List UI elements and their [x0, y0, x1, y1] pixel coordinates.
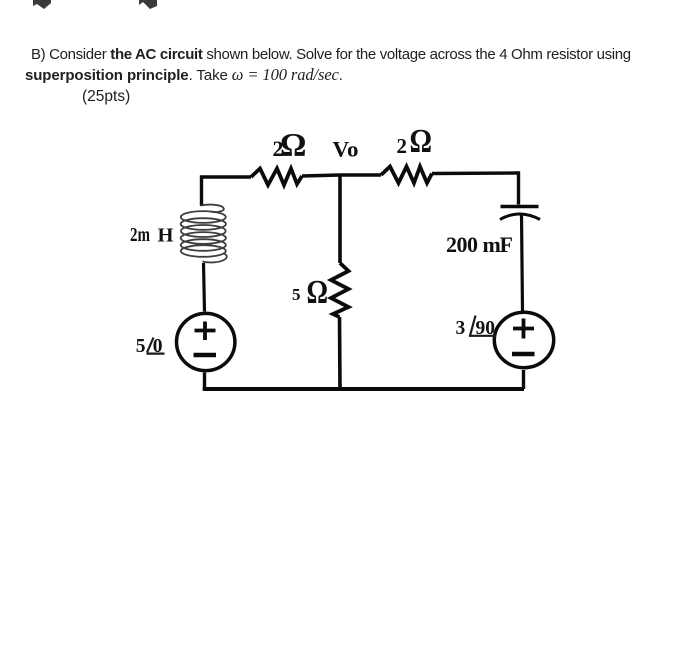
inductor L1 2mH coil — [181, 205, 227, 263]
wire: V2 to bottom rail — [522, 370, 525, 389]
wire: middle vertical (Vo down to R3) — [338, 175, 342, 263]
resistor R3 5-ohm vertical zigzag — [331, 263, 349, 317]
V1 minus sign — [194, 353, 217, 357]
svg-text:H: H — [158, 224, 174, 246]
wire: inductor to source V1 — [204, 263, 205, 312]
wire: R3 to bottom rail — [338, 317, 342, 389]
V1 plus sign — [195, 322, 216, 341]
svg-text:200 m: 200 m — [446, 232, 501, 257]
capacitor C1 curved bottom plate — [500, 214, 540, 220]
svg-text:5: 5 — [136, 336, 146, 357]
wire: bottom rail — [203, 387, 524, 391]
svg-text:Ω: Ω — [410, 123, 433, 160]
cut-off glyph fragment 1 (top margin) — [0, 0, 180, 12]
problem statement line 1 — [31, 46, 631, 63]
svg-text:Ω: Ω — [280, 128, 306, 164]
svg-text:Vo: Vo — [333, 137, 359, 162]
svg-text:5: 5 — [292, 285, 301, 304]
svg-text:Ω: Ω — [307, 274, 329, 311]
wire: top-right corner vertical down to capacitor — [517, 171, 520, 204]
cut-off glyph fragment 2 (top margin) — [139, 0, 157, 9]
wire: top-right horizontal segment — [432, 171, 519, 175]
problem statement line 3 — [82, 88, 130, 106]
resistor R2 2-ohm zigzag — [381, 167, 432, 184]
V2 minus sign — [512, 352, 535, 356]
wire: top-left horizontal segment — [202, 175, 252, 178]
source V2 circle (3 angle 90) — [494, 312, 553, 367]
wire: top middle segment (R1 to node Vo) — [302, 175, 381, 176]
svg-text:2m: 2m — [130, 224, 150, 246]
problem statement line 2 — [25, 65, 343, 85]
wire: V1 to bottom rail — [203, 373, 206, 390]
svg-text:2: 2 — [397, 134, 408, 158]
svg-text:3: 3 — [456, 318, 466, 339]
wire: top-left corner vertical down to inductor — [200, 175, 203, 206]
wire: capacitor to source V2 — [522, 215, 523, 312]
capacitor C1 top plate — [501, 205, 539, 208]
resistor R1 2-ohm zigzag — [251, 169, 302, 186]
svg-text:F: F — [500, 232, 513, 257]
source V1 circle (5 angle 0) — [177, 313, 235, 370]
V2 plus sign — [513, 319, 534, 339]
